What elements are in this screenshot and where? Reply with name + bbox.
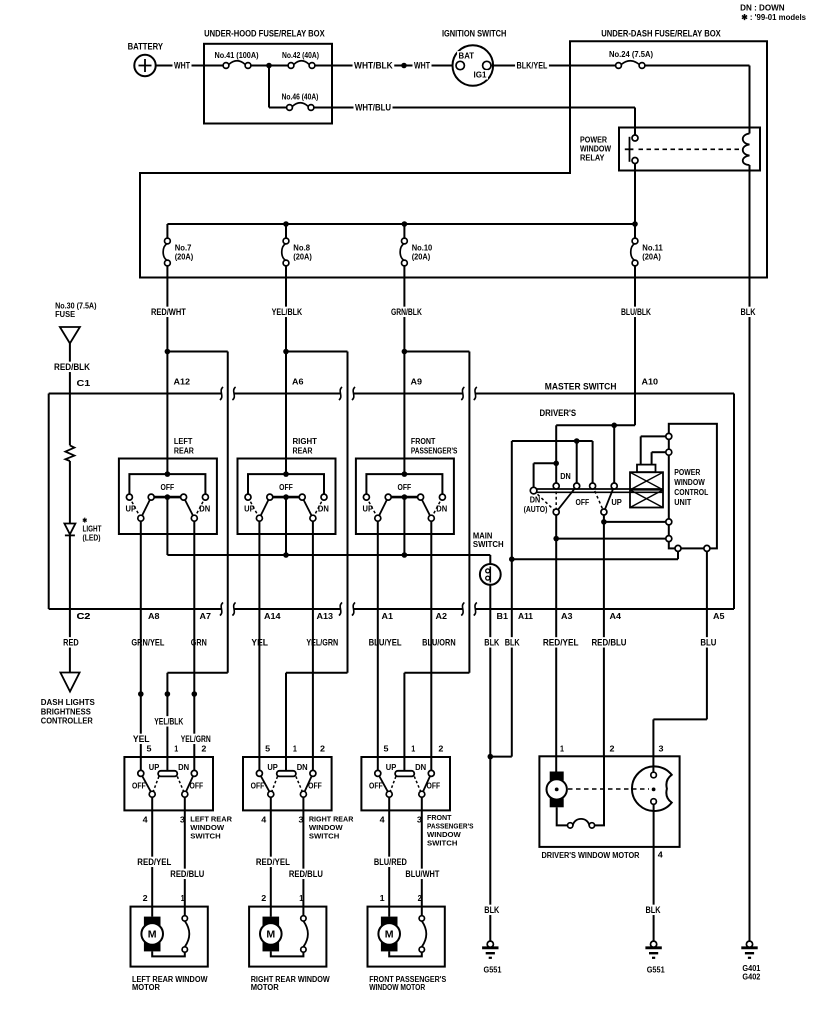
svg-text:WHT: WHT: [414, 61, 430, 71]
svg-text:FRONT: FRONT: [411, 437, 436, 446]
svg-text:UP: UP: [126, 505, 137, 514]
svg-text:A1: A1: [382, 612, 394, 621]
svg-text:UNIT: UNIT: [674, 498, 691, 507]
svg-text:YEL/GRN: YEL/GRN: [306, 638, 338, 648]
svg-text:A10: A10: [642, 378, 659, 387]
svg-text:(20A): (20A): [293, 252, 312, 261]
svg-text:(AUTO): (AUTO): [524, 505, 548, 514]
svg-text:BLU: BLU: [700, 638, 716, 648]
svg-text:BLK: BLK: [484, 638, 499, 648]
svg-text:YEL: YEL: [133, 734, 150, 744]
svg-text:No.10: No.10: [412, 244, 433, 253]
svg-text:G551: G551: [484, 966, 502, 975]
svg-text:BLU/ORN: BLU/ORN: [422, 638, 456, 648]
svg-text:UP: UP: [244, 505, 255, 514]
svg-text:BATTERY: BATTERY: [128, 42, 163, 52]
svg-text:BLU/RED: BLU/RED: [374, 857, 407, 867]
svg-text:POWER: POWER: [674, 468, 700, 477]
svg-text:SWITCH: SWITCH: [309, 832, 339, 841]
svg-text:DN: DN: [530, 496, 541, 505]
svg-text:RED/WHT: RED/WHT: [151, 307, 186, 317]
svg-text:A2: A2: [436, 612, 448, 621]
svg-text:5: 5: [384, 744, 390, 753]
svg-text:OFF: OFF: [427, 782, 441, 791]
svg-text:No.42 (40A): No.42 (40A): [282, 51, 319, 60]
svg-text:No.8: No.8: [293, 244, 310, 253]
svg-text:A5: A5: [713, 612, 725, 621]
svg-text:3: 3: [659, 744, 665, 753]
svg-text:DN: DN: [178, 763, 189, 772]
svg-text:RELAY: RELAY: [580, 154, 605, 163]
svg-text:RED: RED: [63, 638, 79, 648]
svg-text:2: 2: [418, 894, 422, 903]
svg-text:RED/BLK: RED/BLK: [54, 362, 90, 372]
svg-text:No.11: No.11: [642, 244, 663, 253]
svg-text:BLK: BLK: [646, 905, 661, 915]
svg-text:G402: G402: [742, 973, 760, 982]
svg-text:GRN/BLK: GRN/BLK: [391, 307, 422, 317]
svg-text:WINDOW: WINDOW: [674, 478, 705, 487]
svg-text:OFF: OFF: [398, 483, 412, 492]
svg-text:PASSENGER'S: PASSENGER'S: [411, 447, 458, 456]
svg-text:No.41 (100A): No.41 (100A): [214, 51, 258, 60]
svg-text:OFF: OFF: [279, 483, 293, 492]
svg-text:WHT/BLU: WHT/BLU: [355, 103, 391, 113]
svg-text:1: 1: [411, 744, 415, 753]
svg-text:SWITCH: SWITCH: [190, 832, 220, 841]
svg-text:FUSE: FUSE: [55, 310, 75, 319]
svg-text:OFF: OFF: [132, 782, 146, 791]
svg-text:A11: A11: [518, 612, 534, 621]
svg-text:B1: B1: [497, 612, 509, 621]
svg-text:(20A): (20A): [642, 252, 661, 261]
svg-text:A12: A12: [174, 378, 191, 387]
svg-text:M: M: [148, 929, 157, 941]
svg-text:YEL/GRN: YEL/GRN: [181, 734, 211, 744]
svg-text:(20A): (20A): [412, 252, 431, 261]
svg-text:G551: G551: [647, 966, 665, 975]
svg-text:A7: A7: [200, 612, 212, 621]
svg-text:BLK: BLK: [741, 307, 756, 317]
svg-text:DN: DN: [415, 763, 426, 772]
svg-text:MOTOR: MOTOR: [132, 983, 160, 992]
svg-text:LIGHT: LIGHT: [83, 525, 102, 534]
svg-text:BLU/WHT: BLU/WHT: [405, 869, 439, 879]
svg-text:RED/BLU: RED/BLU: [289, 869, 323, 879]
svg-text:C2: C2: [77, 612, 92, 621]
svg-text:BRIGHTNESS: BRIGHTNESS: [41, 707, 91, 716]
svg-text:UNDER-HOOD FUSE/RELAY BOX: UNDER-HOOD FUSE/RELAY BOX: [204, 29, 325, 39]
svg-text:DN: DN: [318, 505, 329, 514]
svg-text:1: 1: [174, 744, 178, 753]
svg-text:A13: A13: [317, 612, 334, 621]
svg-text:No.24 (7.5A): No.24 (7.5A): [609, 50, 653, 59]
svg-text:WHT: WHT: [174, 61, 190, 71]
svg-text:UP: UP: [149, 763, 160, 772]
svg-text:M: M: [266, 929, 275, 941]
svg-text:A14: A14: [264, 612, 281, 621]
svg-text:BLK/YEL: BLK/YEL: [517, 61, 548, 71]
svg-text:RED/YEL: RED/YEL: [543, 638, 579, 648]
svg-text:GRN/YEL: GRN/YEL: [131, 638, 164, 648]
svg-text:WINDOW: WINDOW: [580, 145, 612, 154]
svg-text:✱ : '99-01 models: ✱ : '99-01 models: [741, 13, 806, 22]
svg-text:A6: A6: [292, 378, 304, 387]
svg-text:OFF: OFF: [369, 782, 383, 791]
svg-text:WHT/BLK: WHT/BLK: [354, 61, 393, 71]
svg-text:5: 5: [265, 744, 271, 753]
svg-text:DN : DOWN: DN : DOWN: [740, 4, 785, 13]
svg-text:UP: UP: [363, 505, 374, 514]
svg-text:BAT: BAT: [459, 52, 475, 61]
svg-text:3: 3: [417, 815, 423, 824]
svg-text:YEL/BLK: YEL/BLK: [272, 307, 303, 317]
svg-text:POWER: POWER: [580, 136, 607, 145]
svg-text:No.46 (40A): No.46 (40A): [282, 93, 319, 102]
svg-text:DRIVER'S WINDOW MOTOR: DRIVER'S WINDOW MOTOR: [542, 851, 640, 860]
svg-text:OFF: OFF: [576, 498, 590, 507]
svg-text:A3: A3: [561, 612, 573, 621]
svg-text:BLU/YEL: BLU/YEL: [369, 638, 402, 648]
svg-text:(20A): (20A): [175, 252, 194, 261]
svg-text:3: 3: [180, 815, 186, 824]
svg-text:1: 1: [293, 744, 297, 753]
svg-text:1: 1: [181, 894, 185, 903]
svg-text:2: 2: [438, 744, 444, 753]
svg-text:1: 1: [299, 894, 303, 903]
svg-text:DN: DN: [436, 505, 447, 514]
svg-text:UNDER-DASH FUSE/RELAY BOX: UNDER-DASH FUSE/RELAY BOX: [601, 29, 721, 39]
svg-text:2: 2: [610, 744, 616, 753]
svg-text:OFF: OFF: [251, 782, 265, 791]
svg-text:DASH LIGHTS: DASH LIGHTS: [41, 698, 95, 707]
svg-text:OFF: OFF: [308, 782, 322, 791]
svg-text:2: 2: [201, 744, 207, 753]
svg-text:3: 3: [299, 815, 305, 824]
svg-text:1: 1: [560, 744, 564, 753]
svg-text:RED/YEL: RED/YEL: [137, 857, 171, 867]
svg-text:IGNITION SWITCH: IGNITION SWITCH: [442, 29, 507, 39]
svg-text:WINDOW MOTOR: WINDOW MOTOR: [369, 983, 425, 992]
svg-text:2: 2: [320, 744, 326, 753]
svg-text:4: 4: [261, 815, 267, 824]
svg-text:UP: UP: [386, 763, 397, 772]
svg-text:2: 2: [143, 894, 149, 903]
svg-text:DN: DN: [297, 763, 308, 772]
svg-text:DN: DN: [199, 505, 210, 514]
svg-text:UP: UP: [611, 498, 622, 507]
svg-text:MASTER SWITCH: MASTER SWITCH: [545, 382, 617, 392]
svg-text:4: 4: [380, 815, 386, 824]
svg-text:(LED): (LED): [83, 534, 101, 543]
svg-text:RED/BLU: RED/BLU: [170, 869, 204, 879]
svg-text:BLK: BLK: [484, 905, 499, 915]
svg-text:A4: A4: [610, 612, 622, 621]
svg-text:RIGHT: RIGHT: [293, 437, 318, 446]
svg-text:DN: DN: [560, 472, 571, 481]
svg-text:REAR: REAR: [174, 447, 194, 456]
svg-text:4: 4: [658, 851, 664, 860]
svg-text:1: 1: [380, 894, 386, 903]
svg-text:YEL/BLK: YEL/BLK: [154, 717, 183, 727]
svg-text:GRN: GRN: [191, 638, 207, 648]
svg-text:BLU/BLK: BLU/BLK: [621, 307, 651, 317]
svg-text:4: 4: [143, 815, 149, 824]
svg-text:IG1: IG1: [474, 71, 488, 80]
svg-text:UP: UP: [267, 763, 278, 772]
svg-text:OFF: OFF: [161, 483, 175, 492]
svg-text:C1: C1: [77, 379, 92, 388]
svg-text:A9: A9: [411, 378, 423, 387]
svg-text:OFF: OFF: [190, 782, 204, 791]
svg-text:DRIVER'S: DRIVER'S: [540, 408, 577, 418]
svg-text:CONTROL: CONTROL: [674, 488, 708, 497]
svg-text:RED/BLU: RED/BLU: [592, 638, 627, 648]
svg-text:SWITCH: SWITCH: [473, 540, 504, 549]
svg-text:5: 5: [147, 744, 153, 753]
svg-text:MOTOR: MOTOR: [251, 983, 279, 992]
svg-text:No.7: No.7: [175, 244, 192, 253]
svg-text:CONTROLLER: CONTROLLER: [41, 717, 93, 726]
svg-text:✱: ✱: [82, 517, 88, 525]
svg-text:REAR: REAR: [293, 447, 313, 456]
svg-text:RED/YEL: RED/YEL: [256, 857, 290, 867]
svg-text:A8: A8: [148, 612, 160, 621]
svg-text:BLK: BLK: [505, 638, 520, 648]
svg-text:2: 2: [261, 894, 267, 903]
svg-text:M: M: [385, 929, 394, 941]
svg-text:LEFT: LEFT: [174, 437, 193, 446]
svg-text:SWITCH: SWITCH: [427, 839, 457, 848]
